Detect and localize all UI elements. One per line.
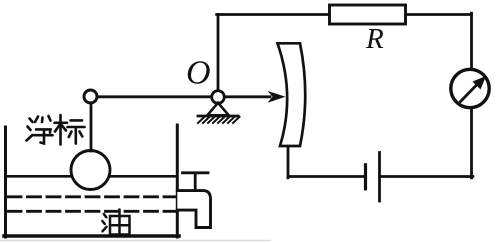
ground hatching bbox=[198, 117, 240, 123]
float rod bbox=[90, 103, 93, 151]
wire: galvanometer down to bottom-right corner bbox=[470, 108, 473, 178]
label 油 (drawn strokes) bbox=[102, 210, 129, 235]
battery long plate bbox=[378, 153, 381, 202]
galvanometer body bbox=[451, 69, 489, 107]
wire: pivot up to top rail bbox=[217, 15, 220, 91]
lever arrowhead bbox=[268, 91, 286, 103]
oil surface line bbox=[6, 175, 176, 178]
faucet handle stem bbox=[194, 174, 197, 190]
tank left wall bbox=[4, 127, 7, 237]
svg-text:R: R bbox=[365, 23, 384, 55]
wire: battery to capacitor bottom bbox=[288, 175, 366, 178]
wire: resistor to top-right corner bbox=[406, 13, 472, 16]
scan artifact at bottom edge bbox=[0, 240, 270, 242]
wire: top rail to resistor bbox=[217, 13, 330, 16]
ground base line bbox=[198, 115, 238, 118]
wire: right side down to galvanometer bbox=[470, 13, 473, 69]
wire: bottom rail to battery bbox=[380, 175, 473, 178]
float ball bbox=[71, 151, 110, 190]
galvanometer needle bbox=[461, 85, 478, 102]
wire: up to curved plate bbox=[287, 146, 290, 178]
joint circle at lever left end bbox=[84, 90, 97, 103]
svg-text:O: O bbox=[186, 55, 211, 92]
label 浮标 (drawn strokes: 标) bbox=[55, 115, 85, 145]
tank bottom bbox=[4, 234, 179, 238]
pivot circle at O bbox=[212, 91, 225, 104]
pivot support triangle bbox=[207, 103, 228, 116]
galvanometer needle head bbox=[473, 76, 487, 90]
oil dashed level line 1 bbox=[8, 195, 175, 198]
battery short plate bbox=[364, 165, 367, 189]
resistor R body bbox=[330, 5, 406, 24]
lever arm wire bbox=[98, 95, 270, 98]
label 浮标 (drawn strokes: 浮) bbox=[27, 116, 53, 144]
faucet body bbox=[177, 191, 210, 228]
oil dashed level line 2 bbox=[8, 210, 175, 213]
curved capacitor plate bbox=[278, 43, 306, 146]
tank right wall bbox=[176, 125, 179, 237]
faucet handle bar bbox=[183, 171, 209, 174]
